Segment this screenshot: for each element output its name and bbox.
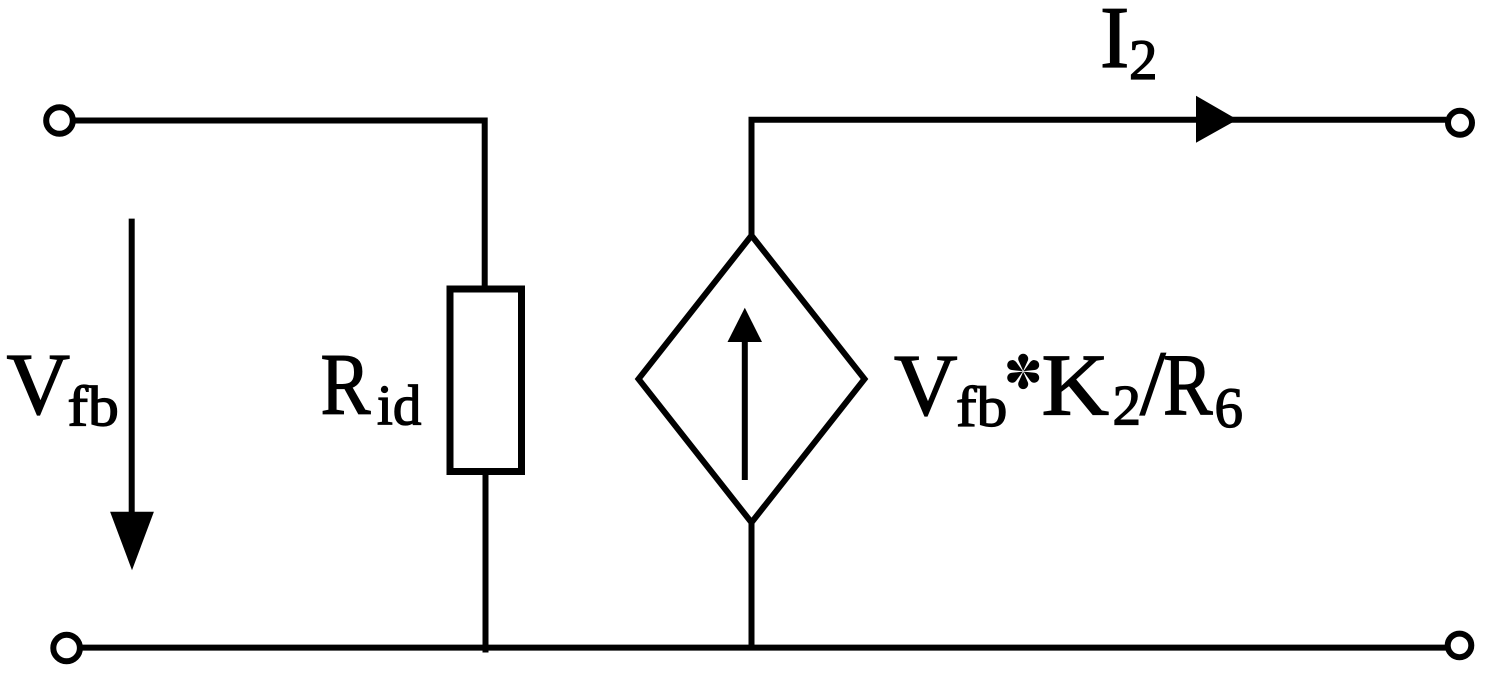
arrow inside current source — [728, 308, 763, 480]
svg-text:K: K — [1042, 337, 1110, 434]
wire: diamond top to top rail and right to terminal — [752, 120, 1447, 237]
arrow: Vfb polarity (downward) — [110, 219, 154, 571]
resistor Rid — [450, 289, 522, 472]
wire: diamond bottom to bottom rail — [749, 522, 755, 648]
svg-text:R: R — [1163, 337, 1213, 434]
svg-text:fb: fb — [68, 375, 119, 438]
wire: top-left terminal to resistor top — [73, 121, 485, 290]
svg-text:2: 2 — [1113, 375, 1142, 438]
label Vfb — [7, 337, 119, 439]
terminal top-right — [1448, 111, 1472, 135]
wire: bottom rail — [82, 645, 1446, 651]
svg-text:fb: fb — [956, 376, 1007, 439]
terminal bottom-right — [1448, 634, 1472, 658]
svg-text:V: V — [7, 337, 71, 434]
dependent current source G1 diamond — [639, 236, 865, 523]
arrowhead I2 current direction — [1196, 96, 1237, 143]
svg-text:6: 6 — [1215, 377, 1244, 440]
terminal bottom-left — [53, 635, 80, 662]
svg-text:2: 2 — [1129, 29, 1158, 92]
wire: resistor bottom to bottom rail — [483, 471, 489, 653]
label Vfb*K2/R6 — [894, 332, 1243, 440]
svg-text:I: I — [1100, 0, 1129, 87]
svg-text:V: V — [894, 337, 958, 434]
label Rid — [321, 337, 422, 438]
svg-text:R: R — [321, 337, 371, 434]
svg-text:id: id — [377, 375, 421, 438]
terminal top-left — [46, 107, 73, 134]
label I2 — [1100, 0, 1158, 92]
